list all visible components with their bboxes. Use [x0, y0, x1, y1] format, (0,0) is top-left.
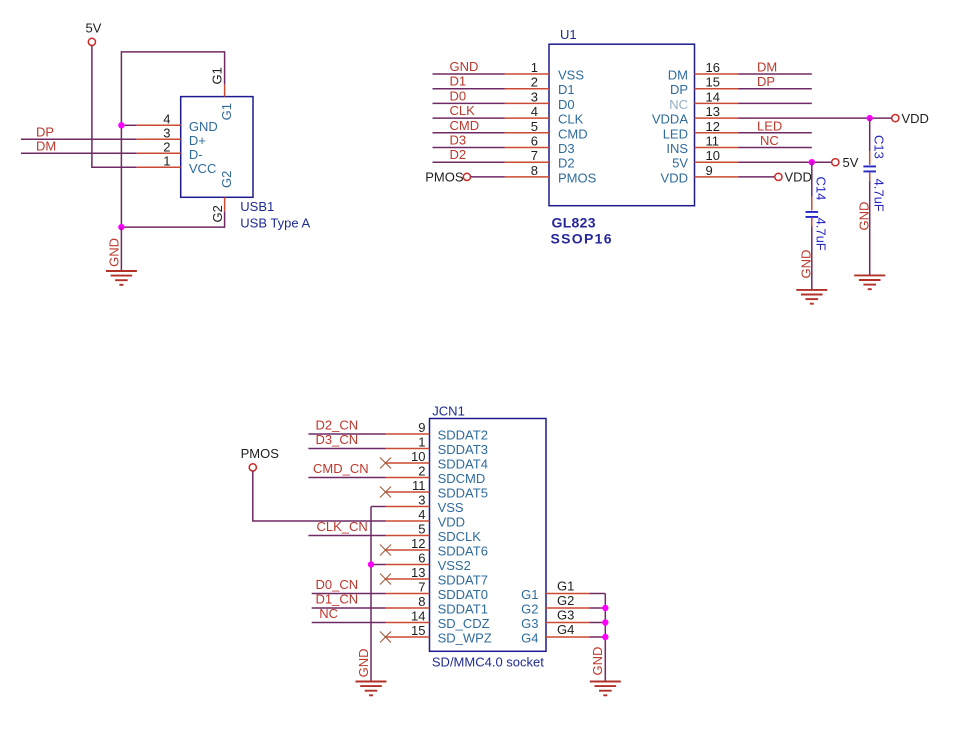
svg-text:USB1: USB1: [240, 199, 274, 214]
svg-text:VSS2: VSS2: [438, 558, 471, 573]
IC U1 GL823 SSOP16: [505, 27, 739, 247]
svg-text:SD_WPZ: SD_WPZ: [438, 631, 492, 646]
svg-text:SD_CDZ: SD_CDZ: [438, 616, 490, 631]
svg-text:DM: DM: [668, 68, 688, 83]
junction: [368, 561, 374, 567]
svg-text:D-: D-: [189, 147, 203, 162]
wire 5V pin 10 to 5V terminal: [739, 161, 832, 163]
svg-text:D+: D+: [189, 133, 206, 148]
pin 8 PMOS: [505, 176, 550, 178]
wire VSS to GND bus: [371, 506, 386, 508]
svg-text:1: 1: [418, 435, 425, 450]
wire C13 to ground: [869, 181, 871, 275]
pin 13 VDDA: [695, 117, 739, 119]
wire CMD: [433, 132, 505, 134]
junction: [867, 115, 873, 121]
svg-text:G3: G3: [557, 608, 574, 623]
svg-text:DP: DP: [670, 82, 688, 97]
wire D0: [433, 102, 505, 104]
svg-text:4: 4: [531, 104, 538, 119]
svg-text:DP: DP: [757, 74, 775, 89]
pin 3 D+: [137, 138, 181, 140]
wire VDD pin 9 to VDD terminal: [739, 176, 775, 178]
wire G3: [590, 622, 606, 624]
pin 10 5V: [695, 161, 739, 163]
svg-text:5: 5: [418, 522, 425, 537]
svg-text:5V: 5V: [86, 21, 102, 36]
wire DM to USB1 pin 2: [21, 152, 137, 154]
junction: [602, 619, 608, 625]
svg-text:PMOS: PMOS: [241, 446, 280, 461]
pin 1 VSS: [505, 73, 550, 75]
junction: [809, 159, 815, 165]
svg-text:VSS: VSS: [558, 68, 584, 83]
svg-text:8: 8: [531, 163, 538, 178]
svg-text:10: 10: [706, 148, 720, 163]
junction: [118, 224, 124, 230]
svg-text:PMOS: PMOS: [558, 170, 597, 185]
svg-text:GND: GND: [856, 202, 871, 231]
svg-text:13: 13: [411, 565, 425, 580]
svg-text:CMD: CMD: [558, 126, 588, 141]
wire CLK: [433, 117, 505, 119]
svg-text:GND: GND: [189, 119, 218, 134]
svg-text:VCC: VCC: [189, 161, 216, 176]
svg-text:3: 3: [418, 493, 425, 508]
wire GND bus (JCN1 right): [604, 594, 606, 682]
no-connect X pin 13: [380, 574, 391, 585]
svg-text:8: 8: [418, 594, 425, 609]
wire NC: [312, 622, 386, 624]
pin 1 VCC: [137, 166, 181, 168]
capacitor C14 4.7uF: [806, 177, 829, 251]
wire GND: [433, 73, 505, 75]
svg-text:14: 14: [706, 89, 720, 104]
svg-text:11: 11: [706, 134, 720, 149]
svg-text:CMD: CMD: [450, 118, 480, 133]
svg-text:G4: G4: [521, 631, 538, 646]
pin 12 LED: [695, 132, 739, 134]
wire GND bus (JCN1 left): [370, 507, 372, 682]
wire D3: [433, 147, 505, 149]
wire D2: [433, 161, 505, 163]
wire CMD_CN: [308, 477, 385, 479]
power terminal 5V: [86, 21, 102, 46]
svg-text:6: 6: [418, 551, 425, 566]
pin 2 D-: [137, 152, 181, 154]
svg-text:GND: GND: [356, 649, 371, 678]
junction: [118, 122, 124, 128]
svg-text:10: 10: [411, 449, 425, 464]
svg-text:VSS: VSS: [438, 500, 464, 515]
pin 14 NC: [695, 102, 739, 104]
svg-text:SDCMD: SDCMD: [438, 471, 486, 486]
svg-text:14: 14: [411, 609, 425, 624]
pin G4: [546, 636, 590, 638]
svg-text:LED: LED: [663, 126, 688, 141]
wire C14 to ground: [811, 227, 813, 290]
power terminal VDD (right): [892, 111, 929, 126]
svg-text:16: 16: [706, 60, 720, 75]
wire PMOS to JCN1 VDD pin 4: [253, 471, 386, 521]
svg-text:C14: C14: [813, 177, 828, 201]
svg-text:G2: G2: [521, 602, 538, 617]
svg-text:SDDAT4: SDDAT4: [438, 457, 488, 472]
svg-text:12: 12: [706, 119, 720, 134]
svg-text:VDD: VDD: [661, 170, 688, 185]
svg-text:VDD: VDD: [902, 111, 929, 126]
svg-text:2: 2: [531, 75, 538, 90]
terminal PMOS (U1 pin 8): [425, 170, 470, 185]
wire CLK_CN: [308, 535, 385, 537]
pin 5 CMD: [505, 132, 550, 134]
svg-text:9: 9: [418, 420, 425, 435]
connector JCN1 SD/MMC4.0 socket: [386, 404, 590, 670]
wire 5V to C14: [811, 162, 813, 196]
svg-text:CMD_CN: CMD_CN: [313, 461, 369, 476]
svg-text:U1: U1: [560, 27, 577, 42]
power terminal 5V (right): [832, 155, 859, 170]
svg-text:SDDAT6: SDDAT6: [438, 544, 488, 559]
svg-text:13: 13: [706, 104, 720, 119]
pin 10 SDDAT4: [386, 462, 430, 464]
svg-text:GND: GND: [798, 250, 813, 279]
wire 5V to USB1 VCC pin 1: [92, 46, 137, 168]
svg-text:SDDAT7: SDDAT7: [438, 573, 488, 588]
pin 3 D0: [505, 102, 550, 104]
svg-text:1: 1: [531, 60, 538, 75]
svg-text:SDDAT0: SDDAT0: [438, 587, 488, 602]
wire D1_CN: [312, 607, 386, 609]
wire VSS2 to GND bus: [371, 564, 386, 566]
ground C14: [796, 290, 827, 304]
svg-text:D0: D0: [450, 88, 467, 103]
svg-text:D0_CN: D0_CN: [316, 577, 359, 592]
svg-text:G2: G2: [557, 593, 574, 608]
svg-text:GND: GND: [450, 59, 479, 74]
svg-text:G1: G1: [557, 579, 574, 594]
svg-text:C13: C13: [871, 135, 886, 159]
pin 13 SDDAT7: [386, 578, 430, 580]
svg-text:4.7uF: 4.7uF: [813, 218, 828, 251]
wire D0_CN: [312, 593, 386, 595]
svg-text:D2: D2: [450, 147, 467, 162]
svg-text:USB Type A: USB Type A: [240, 215, 310, 230]
svg-text:D1_CN: D1_CN: [316, 592, 359, 607]
svg-text:SDDAT1: SDDAT1: [438, 602, 488, 617]
svg-text:NC: NC: [669, 97, 688, 112]
svg-text:CLK: CLK: [558, 112, 584, 127]
pin 4 GND: [137, 124, 181, 126]
wire junction to USB1 pin 4: [121, 124, 136, 126]
wire GND bus to USB1 G2: [121, 211, 224, 227]
wire D3_CN: [308, 448, 385, 450]
svg-text:D3: D3: [450, 133, 467, 148]
pin 8 SDDAT1: [386, 607, 430, 609]
svg-text:VDD: VDD: [785, 170, 812, 185]
pin G1: [546, 593, 590, 595]
svg-text:5: 5: [531, 119, 538, 134]
svg-text:NC: NC: [760, 133, 779, 148]
svg-text:11: 11: [412, 478, 426, 493]
pin G2: [224, 197, 226, 211]
svg-text:6: 6: [531, 134, 538, 149]
ground JCN1 right: [590, 682, 621, 696]
terminal PMOS (JCN1): [241, 446, 280, 471]
no-connect X pin 12: [380, 545, 391, 556]
svg-text:DM: DM: [757, 60, 777, 75]
junction: [602, 634, 608, 640]
svg-text:VDDA: VDDA: [652, 112, 688, 127]
svg-text:SDDAT2: SDDAT2: [438, 428, 488, 443]
pin 15 SD_WPZ: [386, 636, 430, 638]
pin 2 D1: [505, 88, 550, 90]
ground JCN1 left: [356, 682, 387, 696]
wire to ground USB1: [120, 227, 122, 271]
wire LED: [739, 132, 812, 134]
pin 15 DP: [695, 88, 739, 90]
wire G1: [590, 593, 606, 595]
pin 9 SDDAT2: [386, 433, 430, 435]
pin 6 VSS2: [386, 564, 430, 566]
svg-text:SSOP16: SSOP16: [551, 231, 613, 247]
pin 2 SDCMD: [386, 477, 430, 479]
svg-text:G1: G1: [521, 587, 538, 602]
svg-text:G2: G2: [210, 205, 225, 222]
wire G2: [590, 607, 606, 609]
wire D1: [433, 88, 505, 90]
svg-text:G3: G3: [521, 616, 538, 631]
wire INS: [739, 147, 812, 149]
svg-text:4.7uF: 4.7uF: [871, 179, 886, 212]
pin 4 VDD: [386, 520, 430, 522]
ground USB1: [106, 271, 137, 285]
wire PMOS to U1 pin 8: [471, 176, 505, 178]
pin 11 SDDAT5: [386, 491, 430, 493]
pin 16 DM: [695, 73, 739, 75]
svg-text:2: 2: [418, 464, 425, 479]
svg-text:PMOS: PMOS: [425, 170, 464, 185]
junction: [602, 605, 608, 611]
svg-text:VDD: VDD: [438, 515, 465, 530]
svg-text:G4: G4: [557, 622, 574, 637]
power terminal VDD (pin 9): [775, 170, 812, 185]
pin 1 SDDAT3: [386, 448, 430, 450]
svg-text:SD/MMC4.0 socket: SD/MMC4.0 socket: [432, 655, 544, 670]
svg-text:7: 7: [418, 580, 425, 595]
wire DM: [739, 73, 812, 75]
svg-text:GND: GND: [590, 647, 605, 676]
pin 12 SDDAT6: [386, 549, 430, 551]
svg-text:4: 4: [163, 111, 170, 126]
svg-text:SDCLK: SDCLK: [438, 529, 482, 544]
svg-text:2: 2: [163, 139, 170, 154]
svg-text:SDDAT3: SDDAT3: [438, 442, 488, 457]
pin 6 D3: [505, 147, 550, 149]
svg-text:DP: DP: [36, 125, 54, 140]
svg-text:G1: G1: [210, 67, 225, 84]
svg-text:GL823: GL823: [552, 215, 596, 231]
wire DP: [739, 88, 812, 90]
svg-text:DM: DM: [36, 139, 56, 154]
svg-text:CLK_CN: CLK_CN: [317, 519, 368, 534]
no-connect X pin 15: [380, 632, 391, 643]
svg-text:CLK: CLK: [450, 103, 476, 118]
svg-text:5V: 5V: [672, 156, 688, 171]
svg-text:5V: 5V: [843, 155, 859, 170]
svg-text:NC: NC: [319, 606, 338, 621]
no-connect X pin 10: [380, 458, 391, 469]
svg-text:D2: D2: [558, 156, 575, 171]
pin 9 VDD: [695, 176, 739, 178]
no-connect X pin 11: [380, 487, 391, 498]
svg-text:4: 4: [418, 507, 425, 522]
pin 7 SDDAT0: [386, 593, 430, 595]
pin 11 INS: [695, 147, 739, 149]
wire VDDA to VDD terminal: [739, 117, 892, 119]
pin G1: [224, 85, 226, 97]
wire VDD to C13: [869, 118, 871, 151]
pin G2: [546, 607, 590, 609]
capacitor C13 4.7uF: [863, 135, 886, 212]
svg-text:LED: LED: [757, 118, 782, 133]
pin 3 VSS: [386, 506, 430, 508]
wire DP to USB1 pin 3: [21, 138, 137, 140]
pin 14 SD_CDZ: [386, 622, 430, 624]
wire D2_CN: [308, 433, 385, 435]
ground C13: [854, 275, 885, 289]
wire NC pin 14: [739, 102, 812, 104]
pin 4 CLK: [505, 117, 550, 119]
svg-text:3: 3: [163, 125, 170, 140]
svg-text:15: 15: [706, 75, 720, 90]
svg-text:SDDAT5: SDDAT5: [438, 486, 488, 501]
pin 7 D2: [505, 161, 550, 163]
svg-text:1: 1: [163, 153, 170, 168]
connector USB1 USB Type A: [137, 85, 311, 231]
svg-text:GND: GND: [107, 238, 122, 267]
svg-text:D2_CN: D2_CN: [316, 418, 359, 433]
svg-text:D1: D1: [558, 82, 575, 97]
svg-text:G2: G2: [219, 171, 234, 188]
pin G3: [546, 622, 590, 624]
wire USB1 G1 loop to GND bus: [121, 52, 224, 227]
svg-text:G1: G1: [219, 103, 234, 120]
svg-text:JCN1: JCN1: [432, 404, 465, 419]
svg-text:D1: D1: [450, 74, 467, 89]
svg-text:D3_CN: D3_CN: [316, 432, 359, 447]
svg-text:9: 9: [706, 163, 713, 178]
svg-text:D0: D0: [558, 97, 575, 112]
svg-text:INS: INS: [666, 141, 688, 156]
pin 5 SDCLK: [386, 535, 430, 537]
svg-text:15: 15: [411, 623, 425, 638]
svg-text:D3: D3: [558, 141, 575, 156]
wire G4: [590, 636, 606, 638]
svg-text:12: 12: [411, 536, 425, 551]
svg-text:3: 3: [531, 89, 538, 104]
svg-text:7: 7: [531, 148, 538, 163]
